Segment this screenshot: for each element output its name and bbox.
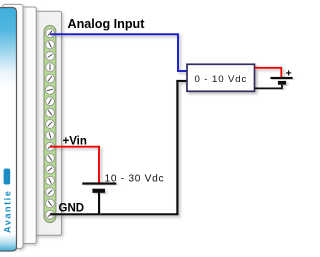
terminal screws 1-17 xyxy=(46,29,55,219)
battery B1 positive plate xyxy=(82,182,116,184)
svg-text:Analog Input: Analog Input xyxy=(68,17,146,31)
wire: battery B1 negative lead to ground wire xyxy=(98,193,100,215)
module middle card (panel 2) xyxy=(10,7,36,244)
battery B2 negative plate xyxy=(278,81,286,85)
brand name (vertical) on face plate xyxy=(3,190,13,233)
meter box: 0 - 10 Vdc indicator xyxy=(187,64,255,91)
label: Analog Input xyxy=(68,17,146,31)
module front card (panel 1) xyxy=(3,4,24,248)
svg-text:10 - 30 Vdc: 10 - 30 Vdc xyxy=(105,173,165,184)
label: +Vin xyxy=(63,136,87,148)
module face plate (blue gradient panel) xyxy=(0,8,17,252)
battery B1 negative plate xyxy=(92,189,105,193)
wire: red box output to battery B2 + xyxy=(255,68,282,77)
wire: black ground return (box low side to GND terminal) xyxy=(50,81,187,214)
brand logo mark on face plate xyxy=(4,169,11,185)
svg-text:+: + xyxy=(286,69,292,80)
value label: 0 - 10 Vdc xyxy=(195,74,248,85)
label: GND xyxy=(59,203,85,215)
svg-text:0 - 10 Vdc: 0 - 10 Vdc xyxy=(195,74,248,85)
terminal block TB1 (green strip) xyxy=(44,26,56,223)
wire: black box return to battery B2 - xyxy=(255,85,283,89)
svg-text:Avantie: Avantie xyxy=(3,190,13,233)
wire: red +Vin supply (terminal to battery B1 +) xyxy=(50,147,99,183)
wire: blue analog input signal (terminal 1 to box V+) xyxy=(50,34,187,71)
label: + polarity of B2 xyxy=(286,69,292,80)
svg-text:GND: GND xyxy=(59,203,85,215)
module rear card (panel 3 holding terminal strip) xyxy=(28,11,62,235)
svg-text:+Vin: +Vin xyxy=(63,136,87,148)
value label: 10 - 30 Vdc xyxy=(105,173,165,184)
battery B2 positive plate xyxy=(271,77,293,79)
